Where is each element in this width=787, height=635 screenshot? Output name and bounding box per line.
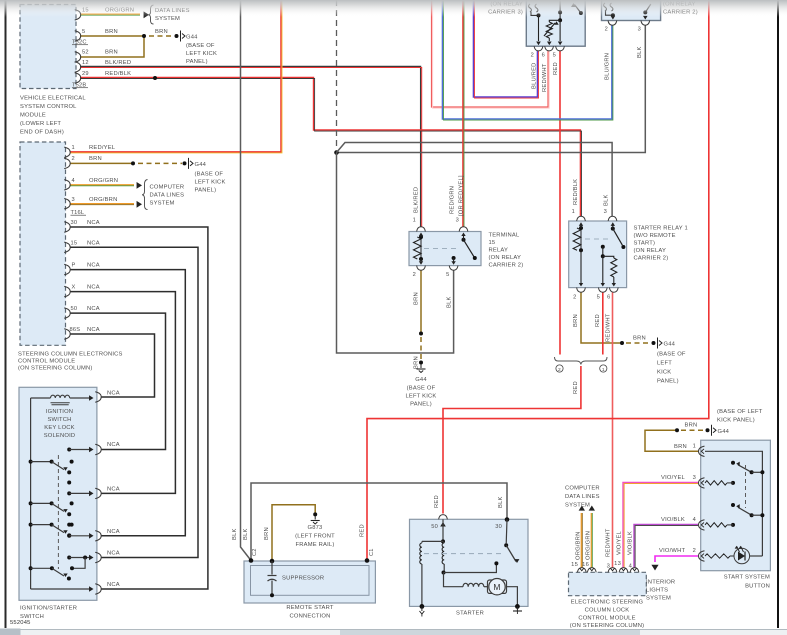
svg-text:LIGHTS: LIGHTS xyxy=(646,588,668,594)
svg-text:(ON STEERING COLUMN): (ON STEERING COLUMN) xyxy=(18,366,93,372)
svg-text:3: 3 xyxy=(607,564,610,570)
node splice RED/BLK xyxy=(153,76,157,80)
brace data lines system xyxy=(148,5,154,24)
starter pin 50 arc xyxy=(439,515,448,520)
ignition switch contact set 5 xyxy=(29,566,33,570)
svg-text:COLUMN LOCK: COLUMN LOCK xyxy=(585,608,630,614)
svg-text:COMPUTER: COMPUTER xyxy=(150,184,185,190)
page left border xyxy=(5,0,7,628)
svg-text:ORG/BRN: ORG/BRN xyxy=(576,532,582,560)
node circled 1 xyxy=(600,365,607,372)
node splice BRN xyxy=(142,34,146,38)
svg-text:X: X xyxy=(72,285,76,291)
svg-text:5: 5 xyxy=(446,272,449,278)
svg-text:SWITCH: SWITCH xyxy=(47,417,71,423)
svg-text:BRN: BRN xyxy=(685,423,698,429)
svg-text:RED/WHT: RED/WHT xyxy=(542,63,548,92)
LED indicator xyxy=(734,548,750,564)
top shadow gradient xyxy=(0,0,787,17)
ignition switch contact set 3 xyxy=(29,523,33,527)
ignition switch contact set 2 xyxy=(67,491,71,495)
svg-text:C1: C1 xyxy=(369,548,375,556)
svg-text:3: 3 xyxy=(604,209,607,215)
svg-text:KEY LOCK: KEY LOCK xyxy=(44,425,75,431)
svg-text:C2: C2 xyxy=(252,548,258,556)
svg-text:86S: 86S xyxy=(70,327,81,333)
svg-text:NCA: NCA xyxy=(87,285,100,291)
svg-text:ORG/GRN: ORG/GRN xyxy=(586,531,592,560)
svg-text:1: 1 xyxy=(572,209,575,215)
node C1 xyxy=(365,558,370,563)
svg-text:BRN: BRN xyxy=(573,314,579,327)
svg-text:TERMINAL: TERMINAL xyxy=(489,233,520,239)
wire BLK from top to remote start C2 xyxy=(241,0,252,561)
relay contact pin 5 terminal 15 relay xyxy=(452,256,456,260)
svg-text:NCA: NCA xyxy=(107,529,120,535)
wire VIO/BLK start button pin 4 to lock module pin 4 xyxy=(634,524,698,567)
wire BRN dashed to G44 xyxy=(149,35,174,37)
svg-text:1: 1 xyxy=(693,444,696,450)
svg-text:BLK/RED: BLK/RED xyxy=(105,60,131,66)
wire RED/YEL module B pin 1 to top xyxy=(70,0,281,152)
svg-text:2: 2 xyxy=(531,53,534,59)
svg-text:2: 2 xyxy=(558,367,561,373)
svg-text:SYSTEM: SYSTEM xyxy=(565,503,590,509)
svg-text:(BASE OF: (BASE OF xyxy=(195,172,224,178)
starter ground right xyxy=(515,604,520,609)
relay switch starter relay 1 xyxy=(611,227,615,231)
svg-text:1: 1 xyxy=(413,218,416,224)
svg-text:ORG/BRN: ORG/BRN xyxy=(89,197,117,203)
svg-text:ELECTRONIC STEERING: ELECTRONIC STEERING xyxy=(571,600,644,606)
svg-text:MODULE: MODULE xyxy=(20,113,46,119)
svg-text:29: 29 xyxy=(82,71,89,77)
svg-text:NCA: NCA xyxy=(107,391,120,397)
svg-text:G44: G44 xyxy=(664,342,676,348)
svg-text:(LOWER LEFT: (LOWER LEFT xyxy=(20,121,61,127)
wire RED starter relay 1 pin 5 to splice brace xyxy=(602,292,604,354)
svg-text:BLK: BLK xyxy=(498,496,504,508)
wire BRN module A pin 5 xyxy=(80,35,144,37)
svg-text:G44: G44 xyxy=(718,429,730,435)
wire NCA module B pin 86S to ignition solenoid xyxy=(70,334,155,397)
electronic steering column lock control module box xyxy=(569,572,647,595)
svg-text:CONTROL MODULE: CONTROL MODULE xyxy=(18,359,75,365)
svg-text:(BASE OF: (BASE OF xyxy=(186,43,215,49)
svg-text:2: 2 xyxy=(693,548,696,554)
svg-text:FRAME RAIL): FRAME RAIL) xyxy=(296,542,335,548)
ignition solenoid xyxy=(31,397,51,399)
relay coil terminal 15 relay xyxy=(414,237,422,259)
ignition switch bottom row xyxy=(31,588,89,590)
svg-text:VIO/BLK: VIO/BLK xyxy=(628,531,634,555)
svg-text:BUTTON: BUTTON xyxy=(745,584,770,590)
node starter pin 30 xyxy=(505,517,510,522)
svg-text:BLK: BLK xyxy=(604,194,610,206)
svg-text:KICK PANEL): KICK PANEL) xyxy=(717,418,755,424)
svg-text:30: 30 xyxy=(495,524,502,530)
wire ORG/GRN module A pin 15 xyxy=(80,13,140,15)
svg-text:END OF DASH): END OF DASH) xyxy=(20,130,64,136)
svg-text:(LEFT FRONT: (LEFT FRONT xyxy=(295,534,335,540)
relay dashed link starter relay 1 xyxy=(585,238,608,240)
ground G44 base of left kick panel module B xyxy=(188,158,190,169)
svg-text:2: 2 xyxy=(72,156,75,162)
arrow interior lights system xyxy=(651,565,658,571)
wire NCA module B pin X to ignition switch xyxy=(70,292,175,494)
lock module pin arcs xyxy=(577,568,586,573)
ground G44 base of left kick panel right xyxy=(711,425,713,436)
ground G44 below terminal 15 relay xyxy=(419,361,423,365)
svg-text:RED/YEL: RED/YEL xyxy=(89,145,116,151)
svg-text:BRN: BRN xyxy=(105,50,118,56)
svg-text:SYSTEM CONTROL: SYSTEM CONTROL xyxy=(20,104,77,110)
svg-text:RED: RED xyxy=(573,381,579,394)
button resistor row 3 xyxy=(705,481,727,485)
svg-text:NCA: NCA xyxy=(107,582,120,588)
wire BRN starter relay 1 pin 2 to G44 xyxy=(581,292,621,343)
svg-text:STARTER RELAY 1: STARTER RELAY 1 xyxy=(634,226,688,232)
wire ORG/BRN lock module pin 15 to computer data lines xyxy=(580,513,582,568)
svg-text:P: P xyxy=(72,263,76,269)
svg-text:6: 6 xyxy=(607,295,610,301)
relay switch relay carrier 3 xyxy=(575,5,581,14)
wire ORG/GRN module B pin 4 xyxy=(70,184,134,186)
module A pin arcs xyxy=(75,10,81,20)
svg-text:G873: G873 xyxy=(308,525,323,531)
svg-text:3: 3 xyxy=(456,218,459,224)
wire BRN dashed to G44 module B xyxy=(138,162,182,164)
ignition switch pin arcs xyxy=(95,392,101,402)
pin arcs relay carrier 2 xyxy=(608,21,617,26)
svg-text:13: 13 xyxy=(614,561,621,567)
svg-text:15: 15 xyxy=(489,240,496,246)
svg-text:LEFT KICK: LEFT KICK xyxy=(405,394,436,400)
relay switch terminal 15 relay xyxy=(462,238,466,242)
wire RED/WHT relay carrier 3 pin 6 to top xyxy=(432,0,549,107)
wire ORG/GRN lock module pin 16 to computer data lines xyxy=(590,513,592,568)
wire RED splice brace to starter pin 50 xyxy=(443,366,581,514)
svg-text:PANEL): PANEL) xyxy=(657,379,679,385)
relay carrier 3 centre contact xyxy=(559,0,561,19)
svg-text:RELAY: RELAY xyxy=(489,248,509,254)
wire BLK/RED module A pin 12 to terminal 15 relay pin 1 xyxy=(80,66,421,226)
wire BRN module A pin 52 xyxy=(80,36,144,57)
svg-text:RED: RED xyxy=(434,495,440,508)
svg-text:(BASE OF: (BASE OF xyxy=(657,352,686,358)
svg-text:BRN: BRN xyxy=(89,156,102,162)
svg-text:(ON STEERING COLUMN): (ON STEERING COLUMN) xyxy=(570,623,645,629)
svg-text:VIO/YEL: VIO/YEL xyxy=(617,530,623,555)
button switch lower xyxy=(731,503,735,507)
svg-text:BRN: BRN xyxy=(414,356,420,369)
svg-text:PANEL): PANEL) xyxy=(410,402,432,408)
svg-text:NCA: NCA xyxy=(87,327,100,333)
svg-text:SYSTEM: SYSTEM xyxy=(155,16,180,22)
wire RED relay carrier 3 pin 5 to splice brace xyxy=(559,51,561,355)
wire BLK splice to starter relay 1 pin 3 xyxy=(337,143,613,217)
svg-text:START SYSTEM: START SYSTEM xyxy=(724,575,770,581)
ground G44 base of left kick panel xyxy=(180,31,182,42)
svg-text:NCA: NCA xyxy=(87,220,100,226)
starter ground left xyxy=(421,564,423,605)
svg-text:START): START) xyxy=(634,241,656,247)
svg-text:INTERIOR: INTERIOR xyxy=(646,580,675,586)
svg-text:BRN: BRN xyxy=(264,527,270,540)
wire NCA module B pin 50 to ignition switch xyxy=(70,313,166,449)
svg-text:CONNECTION: CONNECTION xyxy=(290,614,331,620)
svg-text:NCA: NCA xyxy=(87,306,100,312)
svg-text:[OR RED/YEL]: [OR RED/YEL] xyxy=(459,175,465,216)
svg-text:NCA: NCA xyxy=(107,551,120,557)
svg-text:BRN: BRN xyxy=(674,444,687,450)
svg-text:ORG/GRN: ORG/GRN xyxy=(89,178,118,184)
node ignition key splice xyxy=(334,150,339,155)
svg-text:15: 15 xyxy=(571,562,578,568)
svg-text:BRN: BRN xyxy=(633,336,646,342)
svg-text:PANEL): PANEL) xyxy=(186,59,208,65)
svg-text:LEFT KICK: LEFT KICK xyxy=(195,180,226,186)
starter solenoid dashed link xyxy=(424,553,503,555)
splice brace connector 1 2 xyxy=(555,357,608,365)
wire BLK terminal 15 relay pin 5 to splice xyxy=(337,153,454,354)
brace computer data lines system xyxy=(142,180,148,210)
svg-text:BLU/GRN: BLU/GRN xyxy=(605,53,611,80)
svg-text:VIO/YEL: VIO/YEL xyxy=(661,475,686,481)
svg-text:5: 5 xyxy=(597,295,600,301)
bottom scrollbar strip xyxy=(0,630,787,635)
svg-text:3: 3 xyxy=(638,27,641,33)
svg-text:STEERING COLUMN ELECTRONICS: STEERING COLUMN ELECTRONICS xyxy=(18,352,123,358)
svg-text:52: 52 xyxy=(82,50,89,56)
svg-text:(ON RELAY: (ON RELAY xyxy=(489,255,522,261)
svg-text:IGNITION: IGNITION xyxy=(46,409,73,415)
ground G873 left front frame rail xyxy=(313,512,317,516)
starter relay 1 box xyxy=(569,221,627,288)
starter motor circuit xyxy=(443,564,445,572)
ignition switch contact set 4 xyxy=(67,556,71,560)
svg-text:RED/BLK: RED/BLK xyxy=(573,179,579,205)
starter box xyxy=(410,519,529,606)
svg-text:2: 2 xyxy=(605,27,608,33)
svg-text:RED: RED xyxy=(553,62,559,75)
wire RED/WHT starter relay 1 pin 6 to lock module pin 3 xyxy=(612,292,614,567)
wire VIO/YEL start button pin 3 to lock module pin 13 xyxy=(623,482,698,567)
svg-text:NCA: NCA xyxy=(107,442,120,448)
suppressor capacitor xyxy=(271,561,273,575)
svg-text:RED: RED xyxy=(360,524,366,537)
svg-text:RED/WHT: RED/WHT xyxy=(606,528,612,557)
pin arcs terminal 15 relay xyxy=(417,227,426,232)
wire BLU/RED relay carrier 3 pin 2 to top xyxy=(473,0,537,97)
svg-text:(BASE OF LEFT: (BASE OF LEFT xyxy=(717,409,763,415)
svg-text:NCA: NCA xyxy=(87,263,100,269)
svg-text:50: 50 xyxy=(431,524,438,530)
svg-text:SUPPRESSOR: SUPPRESSOR xyxy=(282,576,324,582)
resistor with arrow relay carrier 3 xyxy=(549,20,560,22)
module B pin arcs xyxy=(64,147,70,157)
relay common contacts starter relay 1 xyxy=(601,245,605,249)
relay coil relay carrier 2 xyxy=(604,3,614,11)
svg-text:(BASE OF: (BASE OF xyxy=(407,386,436,392)
svg-text:16: 16 xyxy=(582,562,589,568)
wire BRN module B pin 2 xyxy=(70,162,133,164)
svg-text:LEFT KICK: LEFT KICK xyxy=(186,51,217,57)
ignition/starter switch box xyxy=(19,387,97,600)
wire BRN remote start to G873 xyxy=(272,505,315,561)
wire NCA module B pin 15 to ignition switch xyxy=(70,247,198,557)
wire NCA module B pin 30 to ignition switch xyxy=(70,227,208,589)
relay dashed link terminal 15 relay xyxy=(424,248,459,250)
svg-text:4: 4 xyxy=(693,517,696,523)
svg-text:BLK/RED: BLK/RED xyxy=(414,187,420,213)
svg-text:50: 50 xyxy=(71,306,78,312)
starter motor inductor xyxy=(463,583,484,586)
svg-text:(ON RELAY: (ON RELAY xyxy=(634,248,667,254)
svg-text:SYSTEM: SYSTEM xyxy=(646,596,671,602)
svg-text:6: 6 xyxy=(542,53,545,59)
svg-text:4: 4 xyxy=(72,178,75,184)
vehicle electrical system control module box xyxy=(20,5,76,89)
svg-text:DATA LINES: DATA LINES xyxy=(150,192,185,198)
svg-text:RED/WHT: RED/WHT xyxy=(606,313,612,342)
svg-text:30: 30 xyxy=(71,220,78,226)
wire ORG/BRN module B pin 3 xyxy=(70,203,134,205)
svg-text:BRN: BRN xyxy=(414,292,420,305)
steering column electronics control module box xyxy=(20,142,66,345)
svg-text:4: 4 xyxy=(629,564,633,570)
wire VIO/WHT start button pin 2 to interior lights xyxy=(655,556,698,562)
pin arcs starter relay 1 xyxy=(577,216,586,221)
dashed key link line xyxy=(336,0,338,150)
svg-text:1: 1 xyxy=(72,145,75,151)
svg-text:552045: 552045 xyxy=(10,620,31,626)
button resistor row 4 xyxy=(705,523,727,527)
wire BLK remote start C2 to starter pin 30 xyxy=(251,483,507,561)
svg-text:VIO/BLK: VIO/BLK xyxy=(661,517,685,523)
svg-text:3: 3 xyxy=(693,475,696,481)
svg-text:(W/O REMOTE: (W/O REMOTE xyxy=(634,233,676,239)
svg-text:BLK: BLK xyxy=(447,296,453,308)
pin arcs relay carrier 3 xyxy=(534,46,543,51)
ignition switch contact set 1 xyxy=(67,448,71,452)
svg-text:CONTROL MODULE: CONTROL MODULE xyxy=(578,616,635,622)
svg-text:RED/BLK: RED/BLK xyxy=(105,71,131,77)
svg-text:BLK: BLK xyxy=(232,528,238,540)
svg-text:M: M xyxy=(493,582,500,592)
svg-text:1: 1 xyxy=(602,367,605,373)
svg-text:3: 3 xyxy=(72,197,75,203)
relay coil relay carrier 3 xyxy=(529,4,539,12)
svg-text:VIO/WHT: VIO/WHT xyxy=(659,548,685,554)
svg-text:IGNITION/STARTER: IGNITION/STARTER xyxy=(20,606,77,612)
svg-text:2: 2 xyxy=(573,295,576,301)
svg-text:G44: G44 xyxy=(186,35,198,41)
start system button box xyxy=(701,440,771,571)
wire BLK relay carrier 2 pin 3 to splice node xyxy=(338,25,645,152)
svg-text:LEFT: LEFT xyxy=(657,361,672,367)
ground G44 right of starter relay xyxy=(657,338,659,349)
button internal rail xyxy=(705,451,762,556)
svg-text:G44: G44 xyxy=(195,162,207,168)
button pin arcs xyxy=(699,446,705,456)
relay coil starter relay 1 xyxy=(573,228,581,250)
svg-text:BLK: BLK xyxy=(637,46,643,58)
starter switch xyxy=(504,543,508,547)
ignition switch left rail xyxy=(30,398,32,589)
starter solenoid coils xyxy=(442,519,444,540)
button switch upper xyxy=(731,461,735,465)
wire NCA module B pin P to ignition switch xyxy=(70,270,185,536)
svg-text:2: 2 xyxy=(413,272,416,278)
wire RED/BLK module A pin 29 to starter relay 1 pin 1 xyxy=(80,77,580,216)
svg-text:SYSTEM: SYSTEM xyxy=(150,200,175,206)
remote start connection box xyxy=(244,561,375,603)
svg-text:BRN: BRN xyxy=(155,29,168,35)
resistor starter relay 1 xyxy=(603,256,614,258)
svg-text:RED: RED xyxy=(595,314,601,327)
svg-text:5: 5 xyxy=(82,29,85,35)
svg-text:REMOTE START: REMOTE START xyxy=(286,605,334,611)
button resistor row 2 and LED xyxy=(705,554,730,558)
relay switch relay carrier 2 xyxy=(645,4,651,12)
ignition switch mechanical dashed link xyxy=(57,455,59,569)
svg-text:VEHICLE ELECTRICAL: VEHICLE ELECTRICAL xyxy=(20,96,86,102)
svg-text:KICK: KICK xyxy=(657,370,671,376)
wire BRN start system button pin 1 to G44 xyxy=(645,430,698,451)
svg-text:PANEL): PANEL) xyxy=(195,188,217,194)
wire BRN terminal 15 relay pin 2 xyxy=(420,270,422,332)
svg-text:NCA: NCA xyxy=(87,241,100,247)
svg-text:DATA LINES: DATA LINES xyxy=(565,494,600,500)
terminal 15 relay box xyxy=(409,232,481,266)
wire RED/GRN [OR RED/YEL] to terminal 15 relay pin 3 xyxy=(462,0,464,227)
svg-text:BLU/RED: BLU/RED xyxy=(532,62,538,89)
svg-text:RED/GRN: RED/GRN xyxy=(450,186,456,214)
relay carrier 3 box xyxy=(526,0,585,46)
svg-text:15: 15 xyxy=(71,241,78,247)
wire RED remote start C1 to top right xyxy=(367,0,709,560)
svg-text:SOLENOID: SOLENOID xyxy=(44,433,76,439)
svg-text:G44: G44 xyxy=(415,377,427,383)
button switch dashed link xyxy=(745,465,747,508)
svg-text:STARTER: STARTER xyxy=(456,611,484,617)
wire BLU/GRN relay carrier 2 pin 2 to top xyxy=(442,0,611,119)
svg-text:12: 12 xyxy=(82,60,89,66)
svg-text:CARRIER 2): CARRIER 2) xyxy=(489,263,524,269)
svg-text:NCA: NCA xyxy=(107,487,120,493)
svg-text:BLK: BLK xyxy=(243,528,249,540)
svg-text:COMPUTER: COMPUTER xyxy=(565,486,600,492)
node circled 2 xyxy=(556,365,563,372)
starter motor M xyxy=(488,580,507,593)
node C2 xyxy=(249,558,254,563)
svg-text:CARRIER 2): CARRIER 2) xyxy=(634,256,669,262)
svg-text:BRN: BRN xyxy=(105,29,118,35)
relay carrier 2 box xyxy=(602,0,661,21)
svg-text:5: 5 xyxy=(553,53,556,59)
page right border xyxy=(777,0,779,628)
